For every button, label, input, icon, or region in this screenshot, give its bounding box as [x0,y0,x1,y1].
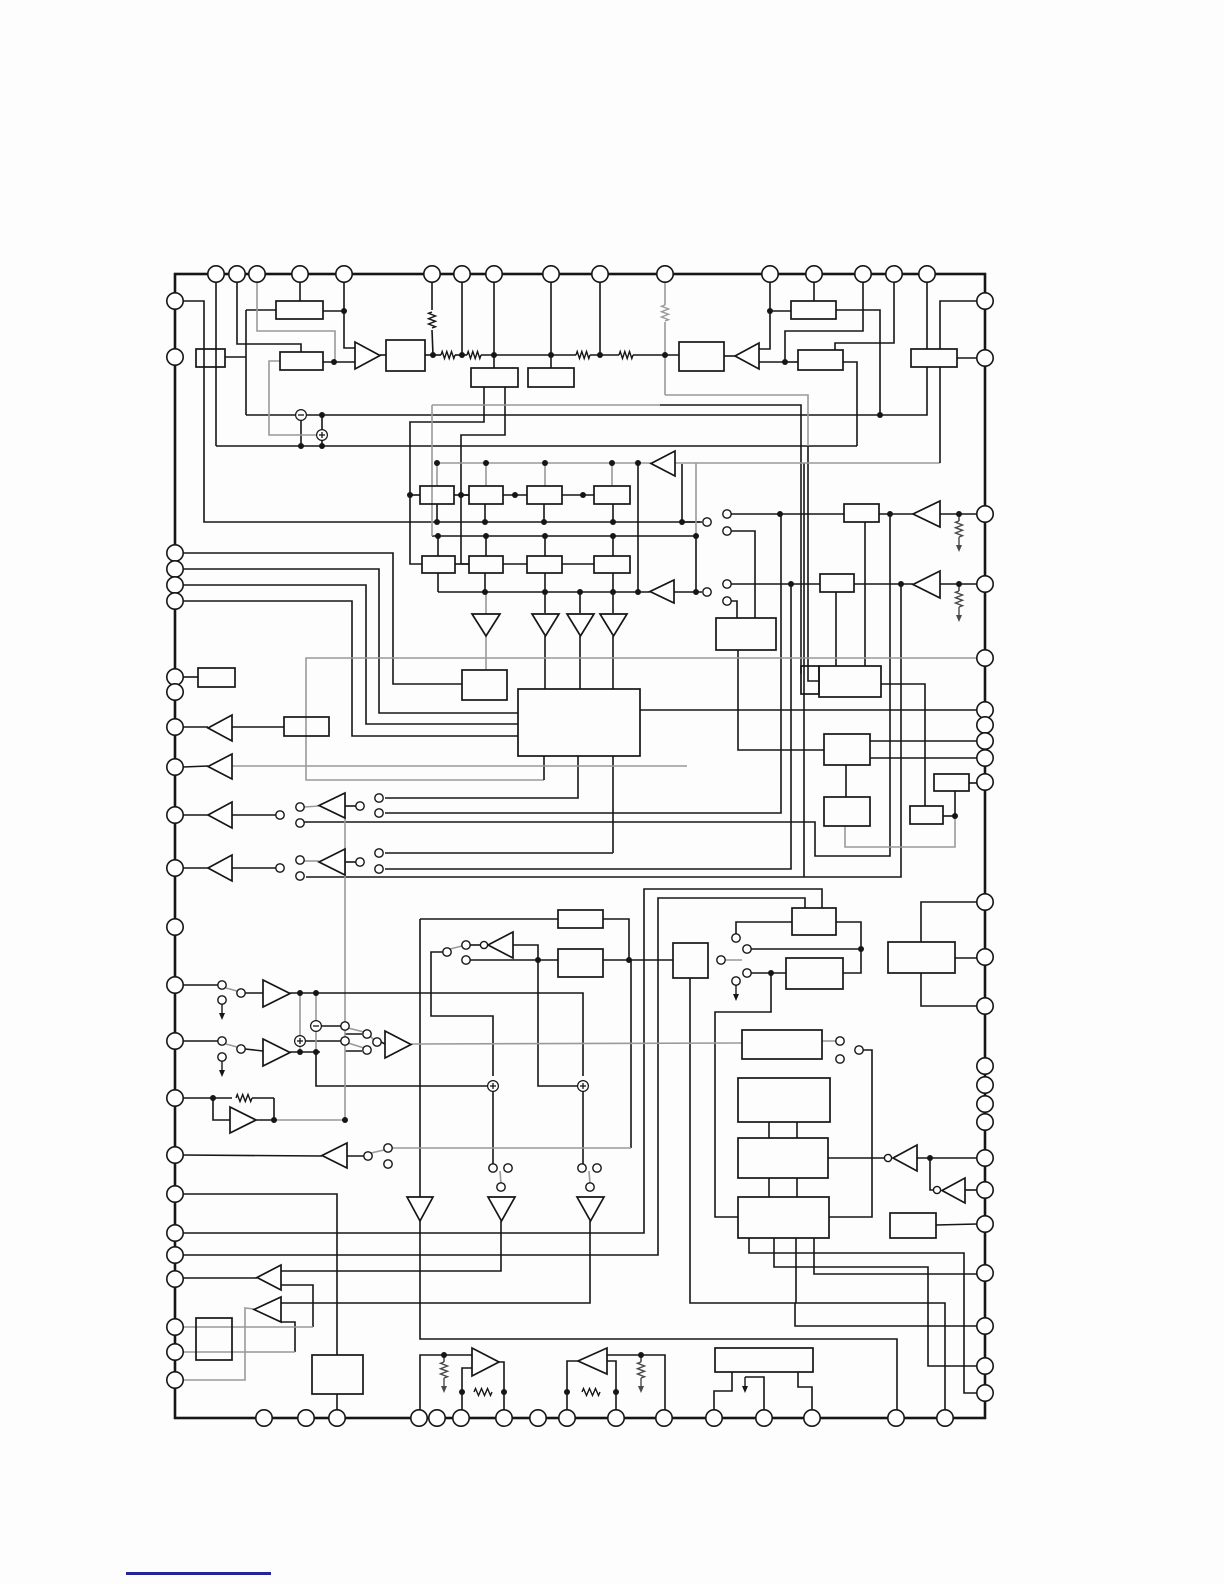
gray wire box B left to plus adder [269,361,316,435]
wire switch row2 lower throw to box N top [731,601,737,618]
resistor row y355 r2 [467,352,481,359]
box H [911,349,957,367]
resistor stub amp1361 input [638,1362,645,1378]
wire inverter2 base to right pin 1162 [917,1157,977,1159]
wire box AG tap x774 to right pin 1366 [774,1238,977,1366]
wire box H bottom drop to gray bus [939,367,941,463]
resistor row y355 r3 [576,352,590,359]
box AD [742,1030,822,1059]
wire y853 row from contact to box R tap [385,852,613,854]
gray y405 left segment [432,404,660,406]
wire left pin 553 to box Q [183,553,462,684]
wire y592 bus [438,591,650,593]
wire x901 from y584 down to y877 row [306,584,901,877]
inverter2 left-pointing [893,1145,917,1171]
wire row2 inter-box links y564 [455,563,469,565]
box Y [558,949,603,977]
box W [910,806,943,824]
wire box G right to y446 [843,362,857,446]
box R big [518,689,640,756]
wire box AA switch common [736,922,792,934]
wire left pin 1279 to buffer apex [183,1277,257,1279]
gray resistor stub amp1361 [640,1355,642,1362]
resistor row y355 r1 [441,352,455,359]
wire box AG tap x796 down to y1303 [795,1238,797,1303]
wire buffer to box P [232,726,284,728]
wire amp1361 output to pin 567 [567,1361,578,1410]
box F [791,301,836,319]
box Q [462,670,507,700]
wire box AC bottom to right pin 1006 [921,973,977,1006]
box AC [888,942,955,973]
adder plus 1041 [295,1036,306,1047]
wire row2a bottom to y592 [437,573,439,592]
gray amp993 taps to adders [299,993,301,1036]
box AA [792,908,836,935]
gray sw815 upper throw to swamp [304,806,319,807]
amp993 output bus to plus2 [320,993,583,1076]
amp 1361 left-pointing [578,1348,607,1374]
wire plus circle down to y446 [321,440,323,446]
gray drop x345 from swamp base to y1120 [344,818,346,1120]
wire left pin 1041 to switch [183,1040,218,1042]
box U [824,797,870,826]
wire top pin 237 down to box B top [237,282,301,352]
amp 1044 right-pointing [385,1031,411,1058]
wire box AA right down to box AB right [836,922,861,973]
box AE [738,1078,830,1122]
wire x631 from y960 down to gray y1148 [630,960,632,1148]
wire box E to left triangle apex [724,355,735,357]
wire plus1041 to contact [305,1040,341,1042]
gray box AD right contact [822,1040,836,1042]
inverter3 left-pointing [942,1178,965,1203]
wire left pin 569 to box R [183,569,518,713]
resistor feedback amp1362 [474,1389,492,1396]
amp 1052 right-pointing [263,1039,290,1066]
wire inverter3 base to right pin 1190 [965,1189,977,1191]
wire node x246 vertical [245,310,247,415]
wire inverter input chain x538 [513,945,578,1086]
wire top pin 894 to box G top [835,282,894,350]
gray box Z output contact [725,959,742,961]
wire res out down to amp out node [273,1098,275,1120]
DAC triangle x590 down [577,1197,604,1221]
wire box Y right to box Z [603,959,673,961]
wire big vertical x420 down to DAC [419,919,421,1197]
gray wire pin 1327 through box AI [183,1326,313,1328]
gray x696 from y463 to y536 [695,463,697,536]
gray switch links 1034 [348,1028,364,1032]
wire triangle2 base to switch [674,591,702,593]
wire DAC2 out to box R top [544,636,546,689]
buffer pin815 left-pointing [208,802,232,828]
resistor row y355 r4 [619,352,633,359]
arrow below r5 [958,537,960,548]
box K2 [528,368,574,387]
wire plus2 bottom to DAC switch [582,1091,584,1164]
wire triangle base to node 785 [759,361,785,363]
gray big loop from right pin 658 to box R bottom [306,658,977,780]
wire x804 from y463 to y877 [803,463,805,877]
wire top pin 551 down [550,282,552,355]
wire x410 feed to row1 box a [410,494,420,496]
adder minus 1026 [311,1021,322,1032]
box T [824,734,870,765]
wire switch common 447 to plus1 top [431,952,493,1076]
wire box R output to right pin 710 [640,709,977,711]
wire amp U1 out to box D [380,354,386,356]
box R1c [527,486,562,504]
wire buffer815 to switch common [232,814,276,816]
wire swamp868 base to contact [345,861,356,863]
gray adders to amp1052 line [315,1031,317,1052]
wire buffer868 to switch common [232,867,276,869]
right pin column [977,293,993,309]
wire left pin 767 to gray buffer [183,766,208,767]
wire box M to triangle [854,583,913,585]
buffer top-right left-pointing [735,343,759,369]
wire box R bottom tap joins gray loop [543,756,545,780]
wire left pin 585 to box R [183,585,518,724]
wire x791 from y584 down to y869 row [385,584,791,869]
wire y415 bus left of minus [246,414,296,416]
wire switch throw to box AB left [751,972,786,974]
wire box S left feed from resnet [808,446,819,681]
wire box AJ bottom to bottom pin 337 [336,1394,338,1410]
box X [558,910,603,928]
wire switch row1 lower throw to box N top [731,531,755,618]
wire box AE to AF links [768,1122,770,1138]
box M [820,574,854,592]
box R2a [422,556,455,573]
box R2d [594,556,630,573]
box R1b [469,486,503,504]
wire top pin 300 to box A top [299,282,301,301]
left pin column [167,293,183,309]
wire y1303 branch up to right pin 1322 [795,1303,977,1326]
wire left pin 1155 from buffer apex [183,1155,322,1156]
wire amp1361 feedback leg from pin 616 [607,1361,616,1410]
wire box Z bottom long drop x690 [690,978,945,1410]
box AB [786,958,843,989]
bottom pin row [256,1410,272,1426]
wire inverter bubble to contact [470,944,480,946]
switch amp 862 left-pointing [319,849,345,875]
wire left pin 1255 bus to box AA top via x658 [183,898,805,1255]
gray DAC1 stem and output [485,592,487,614]
wire box AF right to inverter2 [828,1157,884,1159]
wire box L to triangle [879,513,913,515]
wire box X feed line y919 [420,918,558,920]
wire top pin 344 via box A right to amp input [344,282,355,348]
box V [934,774,969,791]
wire row2 bottoms and DAC stems [484,573,486,592]
gray wire pin 1380 up to buffer1310 apex [183,1308,254,1380]
adder minus 415 [296,410,307,421]
wire plus1 bottom to DAC switch [492,1091,494,1164]
amp 1120 right-pointing [230,1107,256,1133]
arrow below amp1362 stub [443,1378,445,1389]
wire node 770 to box F left [770,310,791,312]
wire buffer1310 lower output loop to pin1352 net [281,1322,295,1352]
wire box A right edge to node [323,310,344,312]
inverter3 bubble [933,1186,940,1193]
wire x682 triangle base to y522 [681,464,683,522]
wire left pin 1233 bus to box AA top via x644 [183,889,822,1233]
wire top pin 863 to node 785 [785,282,863,362]
wire box AK arrow tab from bottom pin 764 [745,1377,764,1410]
DAC buffer T3 down [567,614,594,636]
gray switch diagonal 1041 [226,1044,237,1047]
wire y446 bus [216,445,857,447]
arrow below amp1361 stub [640,1378,642,1389]
DAC triangle x420 down [407,1197,433,1221]
wire amp993 output node [290,992,320,994]
wire y415 right end up into box H bottom [922,367,927,415]
wire resistor row y355 segments [425,354,441,356]
gray bus drops to matrix row1 tops [436,463,438,486]
wire amp1120 apex to node [256,1119,274,1121]
box R1a [420,486,454,504]
DAC buffer T2 down [532,614,559,636]
box C [196,349,225,367]
wire box F right to y415 dot [836,310,880,415]
box L [844,504,879,522]
wire pole tap y1051 from gray drop [345,1050,362,1052]
wire box R bottom tap to y798 row [385,756,578,798]
wire triangle to right pin 584 [940,583,977,585]
wire contact to amp1044 input [381,1042,385,1044]
wire switch throw to node 861 [751,948,861,950]
switch amp 806 left-pointing [319,793,345,818]
wire DAC590 apex to buffer1310 base [281,1221,590,1303]
wire box AG tap x814 to right pin 1273 [814,1238,977,1274]
wire box C to node x246 [225,356,246,358]
box AF [738,1138,828,1178]
buffer y463 left-pointing [651,451,675,476]
wire top pin 600 down [599,282,601,355]
gray y1148 wire to switch 1156 [392,1147,631,1149]
gray resistor stub amp1362 [443,1355,445,1362]
wire amp1052 to plus1 left via y1086 [316,1052,488,1086]
junction dots [341,308,347,314]
gray bus y463 left part [437,462,651,464]
gray switch diagonal 985 [226,988,237,991]
buffer pin868 left-pointing [208,855,232,881]
wire top pin 494 down [493,282,495,355]
wire right pin 902 to box AC top [921,902,977,942]
wire x801 from y405 to box S2 top [660,405,801,674]
wire box AG tap x749 to right pin 1393 [749,1238,977,1393]
wire left pin 727 to buffer [183,726,208,728]
IC border [175,274,985,1418]
box S2 [801,666,819,694]
wire top pin 432 resistor branch [431,282,433,310]
box Z [673,943,708,978]
wire box AF to AG links [768,1178,770,1197]
wire top pin 216 down to y446 bus [215,282,217,446]
wire node 771 down-left to box AG left [715,973,771,1217]
inverter1 left-pointing [488,932,513,958]
box A [276,301,323,319]
box AJ [312,1355,363,1394]
wire x638 link y463 to y592 [637,463,639,592]
wire box AK left tab to bottom pin 714 [714,1372,732,1410]
wire left pin 985 to switch [183,984,218,986]
DAC buffer T1 down [472,614,500,636]
wire left pin 868 to buffer [183,867,208,869]
wire box V out to right pin 782 [969,782,977,784]
wire y1355 feed to amp1362 and bottom pin 419 [420,1355,472,1410]
box AI [196,1318,232,1360]
wire top pin 770 down to triangle base [759,282,770,349]
wire amp1052 output node [290,1051,320,1053]
wire row1 inter-box links y495 [454,494,469,496]
wire y415 bus [306,414,922,416]
DAC buffer T4 down [600,614,627,636]
switch contact circles [703,518,711,526]
gray resistor stub at right pin 514 [958,514,960,521]
wire DAC420 apex down and right to bottom pin 896 [420,1221,897,1410]
wire switch row2 upper throw to box M line [731,583,820,585]
buffer 1278 left-pointing [257,1265,281,1290]
top pin row [208,266,224,282]
wire y960 node to box Y [533,959,558,961]
gray wire top pin 665 resistor to box S feed [664,282,666,305]
wire DAC501 apex to buffer1278 base [281,1221,501,1271]
wire box L bottom to box S top [864,522,866,666]
wire box W right to node 955 [943,815,955,817]
wire box AK right tab to bottom pin 812 [798,1372,812,1410]
gray bus y463 right part [675,462,940,464]
buffer y584 left-pointing [913,571,940,598]
arrow below r6 [958,607,960,618]
switch arrow 985 [221,1004,223,1016]
wire x461 feed to row1 box b [461,494,469,496]
adder plus1 1086 [488,1081,499,1092]
wire amp1120 feedback leg [213,1098,230,1120]
buffer 1310 left-pointing [254,1297,281,1322]
wire K2 top stub [550,355,552,368]
wire box AH to right pin 1224 [936,1224,977,1225]
gray sw868 upper throw to swamp [304,860,319,862]
wire switch row1 upper throw to box L line [731,513,780,515]
wire box V bottom to node 955 [954,791,956,816]
inverter2 bubble [884,1154,891,1161]
wire buffer1278 lower output loop to pin1327 net [280,1285,313,1327]
buffer pin727 left-pointing [208,715,232,741]
resistor stub r5 at pin514 [956,521,963,537]
wire pole tap y1034 from gray drop [345,1033,362,1035]
switch arrow AA [735,985,737,997]
box G [798,350,843,370]
gray amp1044 output to box AD [411,1043,742,1044]
wire y536 bus [432,535,696,537]
wire box B right to amp input [323,361,355,363]
wire box T bottom to box U top [845,765,847,797]
wire pin L301 to y522 bus [183,301,700,522]
amp 993 right-pointing [263,980,290,1007]
wire matrix row1 bottoms to y522 [436,504,438,522]
wire triangle to right pin 514 [940,513,977,515]
wire contact to y960 node [470,959,533,961]
wire DAC3 out to box R top [579,636,581,689]
box E [679,342,724,371]
box S [819,666,881,697]
box N [716,618,776,650]
wire top pin 927 to box H top [926,282,928,349]
gray wire pin 1352 through box AI [183,1351,295,1353]
box B [280,352,323,370]
wire box H right to right pin 357 [957,357,977,359]
wire y536 stubs to row2 tops [437,536,439,556]
box AK [715,1348,813,1372]
wire box M bottom to box S top [835,592,837,666]
box D [386,340,425,371]
gray buffer767 output line [232,765,687,767]
wire x781 from y514 down to y813 row [385,514,781,813]
adder plus 435 [317,430,328,441]
wire y514 line to box L [780,513,844,515]
wire switch throw to amp input 1049 [245,1049,263,1051]
resistor stub r6 at pin584 [956,591,963,607]
gray y1120 wire from amp node to x345 [274,1119,345,1121]
buffer y514 left-pointing [913,501,940,527]
wire switch1050 common to box AG right [829,1050,872,1217]
wire node 785 to box G left [785,361,798,363]
wire box T out to right pin 741 [870,740,977,742]
wire top pin 814 to box F top [813,282,815,301]
wire box R bottom tap to y853 row [612,756,614,853]
wire x890 from y514 via y856 jog to sw815 lower throw [304,514,890,856]
wire left pin 677 to box O [183,676,198,678]
wire DAC4 out to box R top [612,636,614,689]
wire K1 bottom left to matrix col feed x410 [410,387,484,564]
wire left pin 1098 amp loop [183,1097,232,1099]
wire dot 322 down to plus circle [321,415,323,430]
wire buffer1156 base to contact [347,1155,364,1157]
resistor R-top-432 vertical [429,312,436,328]
box R1d [594,486,630,504]
box AH [890,1213,936,1238]
box O [198,668,235,687]
wire K1 bottom right to matrix col feed x461 [461,387,505,564]
wire box N bottom to box T left [738,650,824,750]
footer rule [126,1572,271,1575]
buffer pin1155 left-pointing [322,1143,347,1168]
wire box T out to right pin 758 [870,757,977,759]
box R2b [469,556,503,573]
wire node 930 down to inverter3 bubble [930,1158,933,1190]
wire right pin 301 to box H top [940,301,977,349]
wire box AC right to right pin 957 [955,957,977,959]
resistor stub amp1362 input [441,1362,448,1378]
wire swamp815 base to contact [345,805,356,807]
wire node x246 to box A [246,309,276,311]
wire x696 down from dot536 to y592 [695,536,697,592]
wire switch throw to amp input 993 [245,992,263,994]
gray wire top pin 257 to box B node [257,282,335,360]
DAC triangle x501 down [488,1197,515,1221]
wire minus1026 to contact [321,1025,341,1027]
resistor feedback amp1361 [582,1389,600,1396]
gray wire x432 from y405 to y536 [431,405,433,536]
switch arrow 1041 [221,1061,223,1073]
wire y522 to switch [682,521,702,523]
box K1 [471,368,518,387]
gray switch link 1148 [371,1150,384,1153]
